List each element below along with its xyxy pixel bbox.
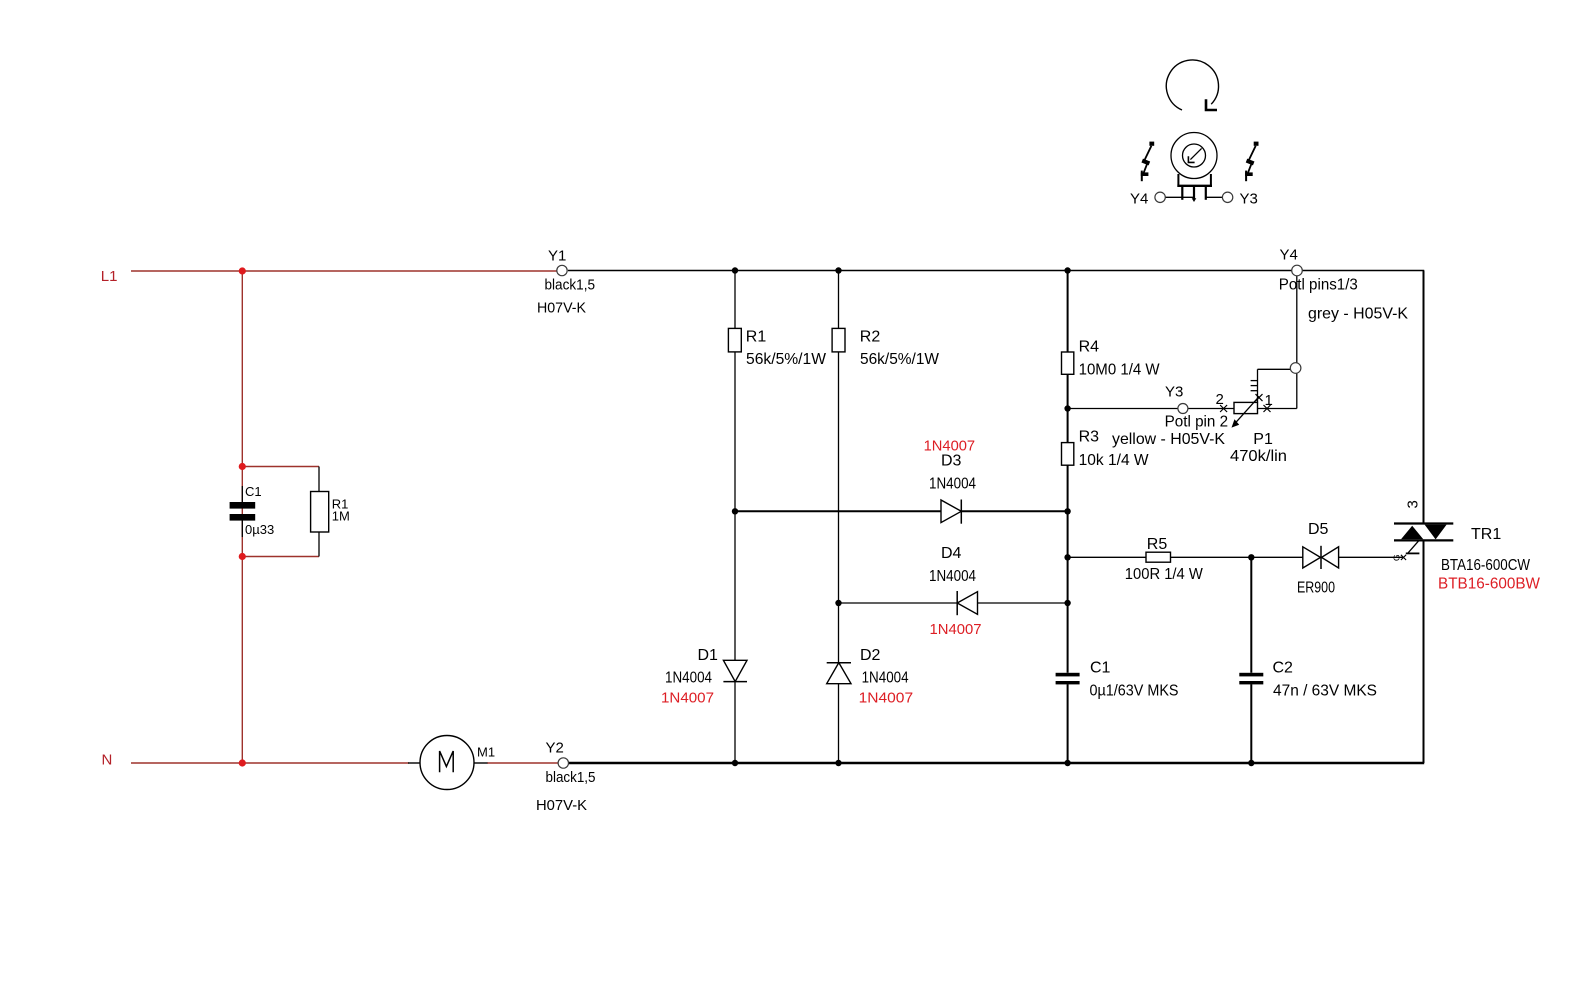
svg-text:2: 2 bbox=[1216, 391, 1224, 408]
svg-text:Potl pins1/3: Potl pins1/3 bbox=[1279, 277, 1358, 294]
svg-text:1N4004: 1N4004 bbox=[862, 670, 909, 687]
svg-text:C2: C2 bbox=[1273, 659, 1294, 676]
svg-text:black1,5: black1,5 bbox=[546, 769, 596, 786]
svg-text:10k 1/4 W: 10k 1/4 W bbox=[1079, 452, 1150, 469]
svg-text:yellow - H05V-K: yellow - H05V-K bbox=[1112, 431, 1225, 448]
svg-text:Y4: Y4 bbox=[1280, 247, 1298, 264]
svg-text:M1: M1 bbox=[477, 745, 495, 760]
svg-text:R4: R4 bbox=[1079, 338, 1100, 355]
svg-text:1M: 1M bbox=[332, 509, 350, 524]
svg-text:D2: D2 bbox=[860, 647, 881, 664]
svg-text:P1: P1 bbox=[1253, 431, 1273, 448]
svg-text:1N4007: 1N4007 bbox=[859, 689, 914, 706]
svg-text:H07V-K: H07V-K bbox=[536, 797, 587, 814]
svg-text:R1: R1 bbox=[746, 329, 767, 346]
svg-text:10M0 1/4 W: 10M0 1/4 W bbox=[1079, 361, 1161, 378]
svg-text:1N4004: 1N4004 bbox=[665, 670, 712, 687]
svg-text:1N4004: 1N4004 bbox=[929, 568, 976, 585]
svg-text:D1: D1 bbox=[698, 647, 719, 664]
svg-text:Y3: Y3 bbox=[1165, 384, 1183, 401]
svg-text:Y1: Y1 bbox=[548, 248, 566, 265]
svg-text:0µ33: 0µ33 bbox=[245, 522, 274, 537]
svg-text:56k/5%/1W: 56k/5%/1W bbox=[746, 351, 827, 368]
svg-text:470k/lin: 470k/lin bbox=[1230, 448, 1287, 465]
svg-text:1N4004: 1N4004 bbox=[929, 476, 976, 493]
svg-text:Potl pin 2: Potl pin 2 bbox=[1165, 414, 1229, 431]
svg-text:G: G bbox=[1391, 554, 1401, 561]
svg-text:0µ1/63V MKS: 0µ1/63V MKS bbox=[1090, 683, 1179, 700]
svg-text:R3: R3 bbox=[1079, 428, 1100, 445]
svg-text:ER900: ER900 bbox=[1297, 580, 1335, 597]
svg-text:56k/5%/1W: 56k/5%/1W bbox=[860, 351, 940, 368]
svg-text:100R 1/4 W: 100R 1/4 W bbox=[1125, 566, 1204, 583]
svg-text:3: 3 bbox=[1405, 500, 1422, 508]
svg-text:D3: D3 bbox=[941, 453, 962, 470]
svg-text:C1: C1 bbox=[1090, 659, 1111, 676]
svg-text:TR1: TR1 bbox=[1471, 526, 1501, 543]
svg-text:1N4007: 1N4007 bbox=[661, 689, 714, 706]
svg-text:grey - H05V-K: grey - H05V-K bbox=[1308, 306, 1408, 323]
svg-text:C1: C1 bbox=[245, 484, 262, 499]
svg-text:D5: D5 bbox=[1308, 521, 1329, 538]
svg-text:1N4007: 1N4007 bbox=[924, 437, 976, 454]
svg-text:1N4007: 1N4007 bbox=[930, 621, 982, 638]
svg-text:47n / 63V MKS: 47n / 63V MKS bbox=[1273, 683, 1377, 700]
svg-text:BTB16-600BW: BTB16-600BW bbox=[1438, 575, 1541, 592]
svg-text:Y3: Y3 bbox=[1240, 191, 1258, 208]
svg-text:D4: D4 bbox=[941, 545, 962, 562]
svg-text:1: 1 bbox=[1265, 392, 1273, 409]
svg-text:Y2: Y2 bbox=[546, 740, 564, 757]
svg-text:L1: L1 bbox=[101, 268, 118, 285]
svg-text:Y4: Y4 bbox=[1130, 191, 1148, 208]
svg-text:black1,5: black1,5 bbox=[545, 277, 596, 294]
svg-text:N: N bbox=[102, 752, 113, 769]
svg-text:BTA16-600CW: BTA16-600CW bbox=[1441, 557, 1531, 574]
svg-text:R5: R5 bbox=[1147, 536, 1168, 553]
svg-text:H07V-K: H07V-K bbox=[537, 300, 586, 317]
svg-text:R2: R2 bbox=[860, 329, 881, 346]
